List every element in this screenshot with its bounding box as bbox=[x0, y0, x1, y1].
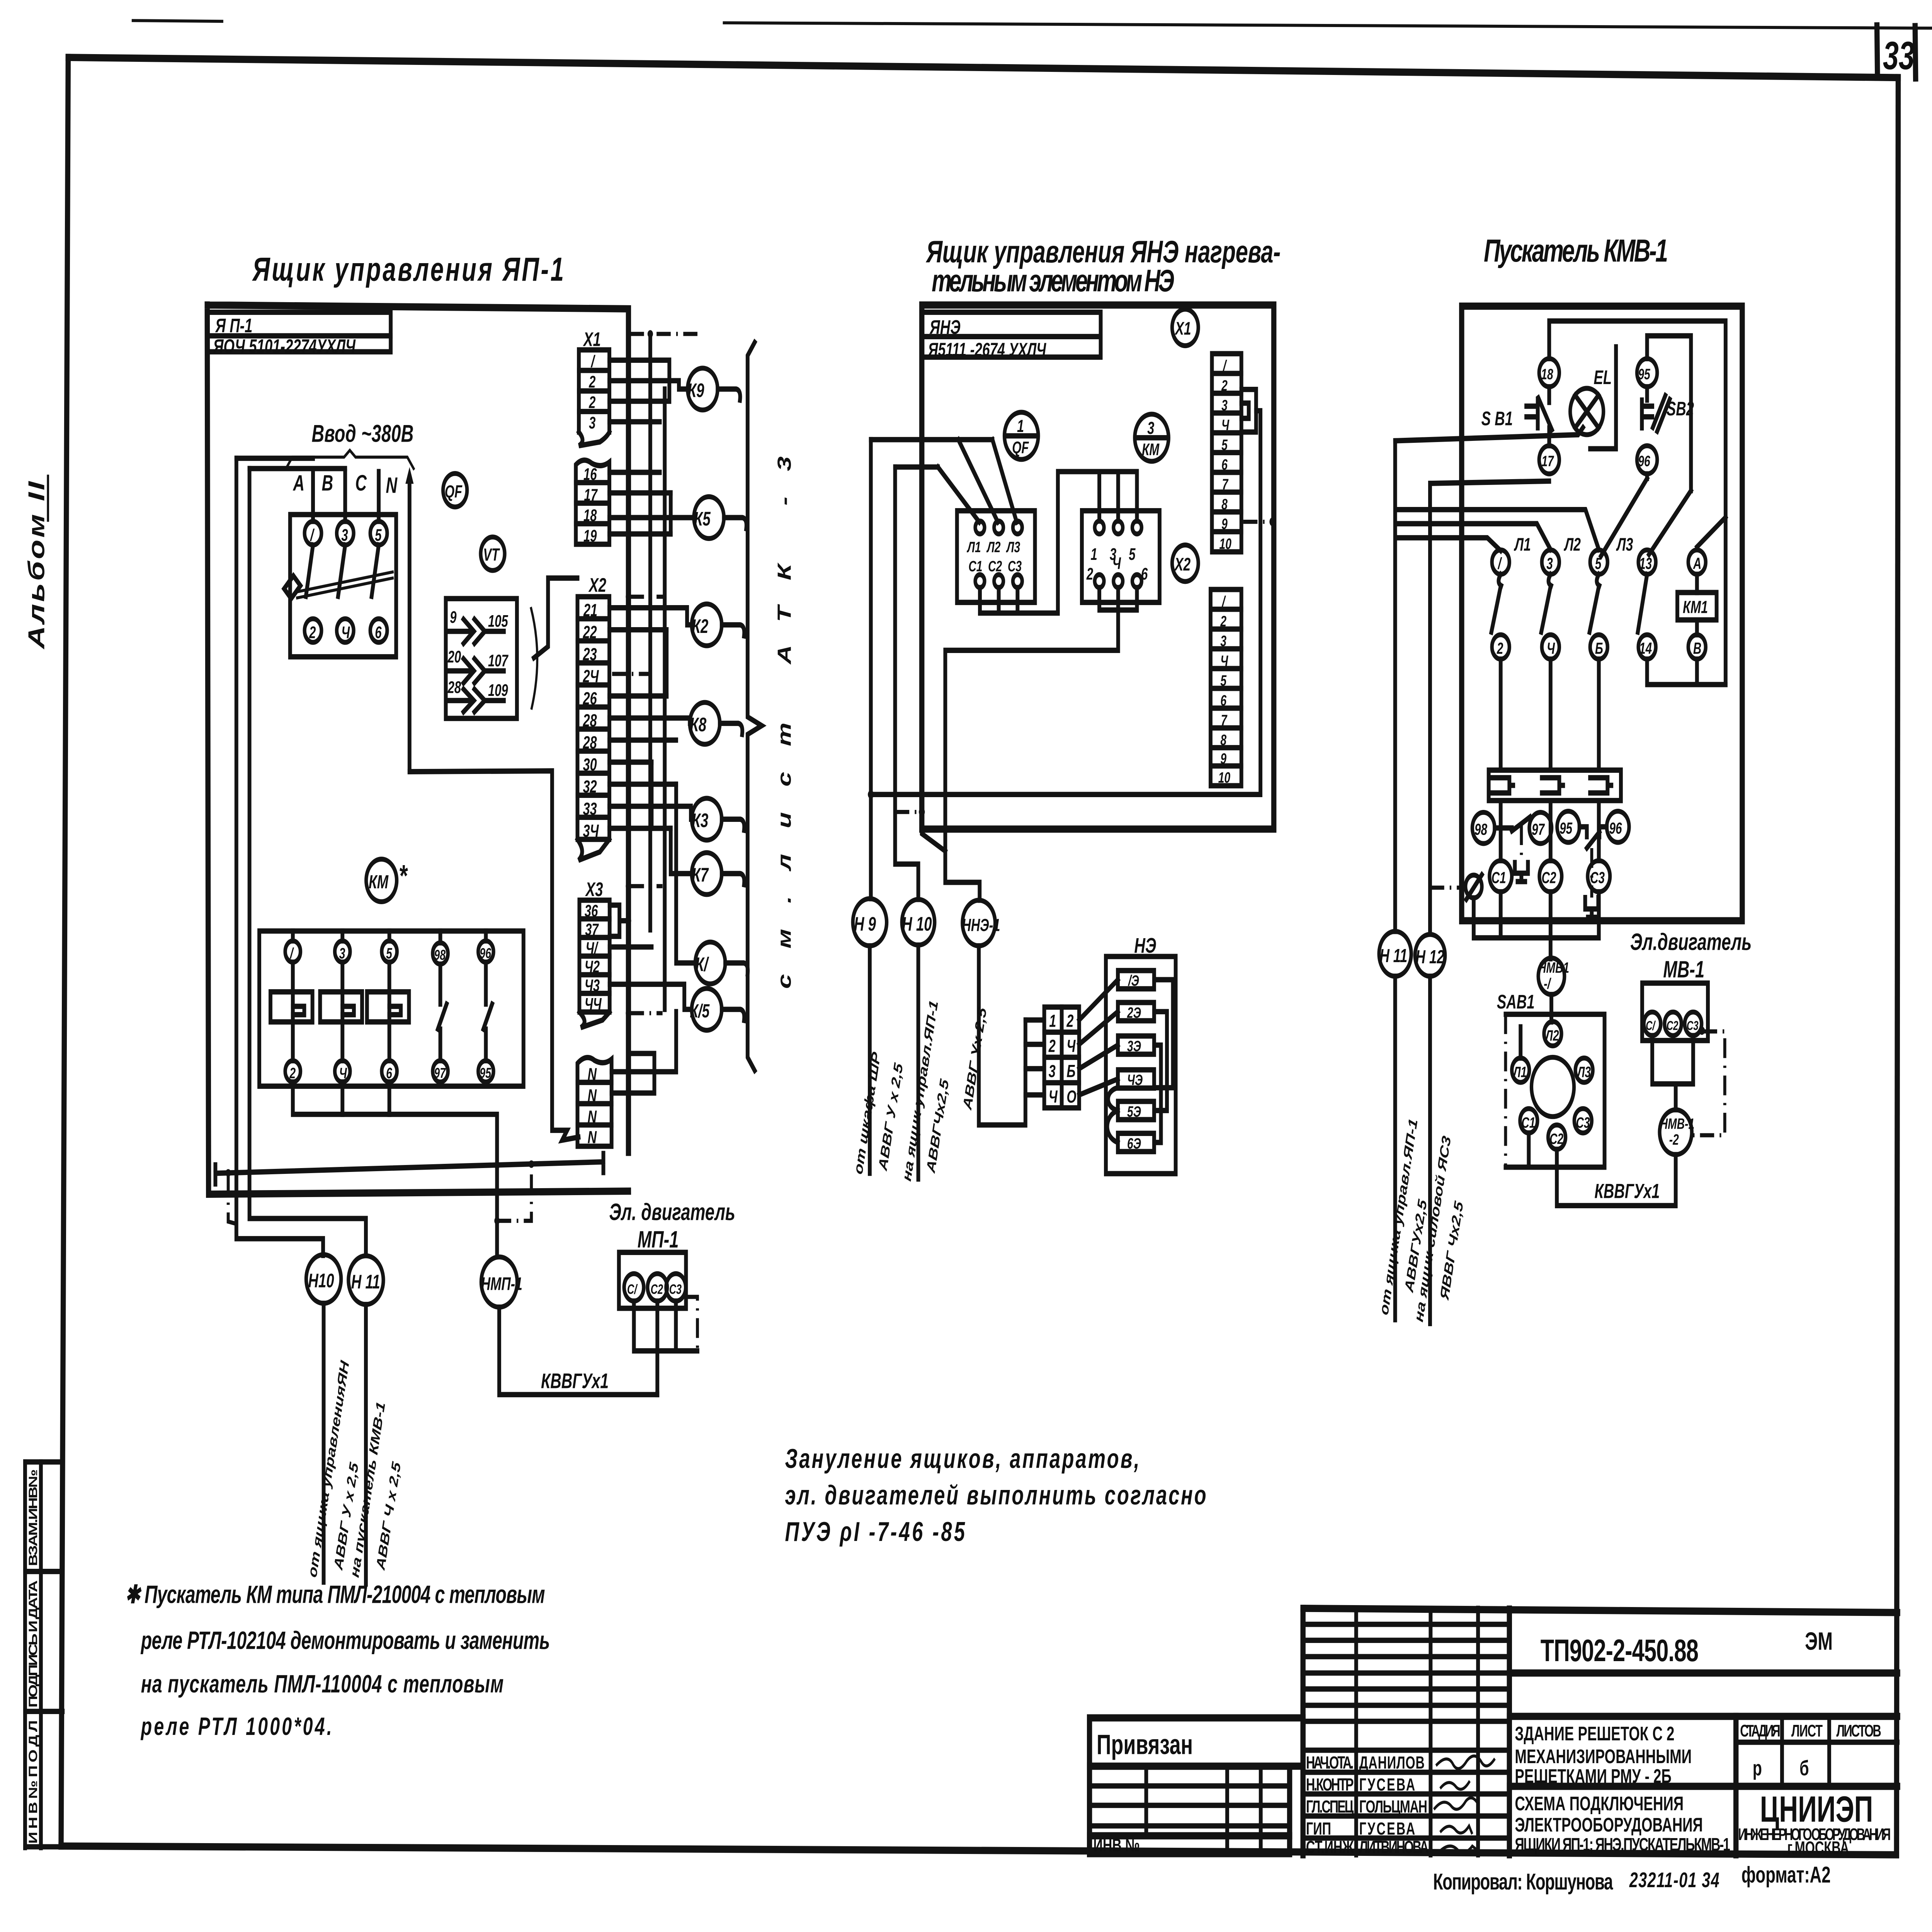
socket pin C2 bbox=[1548, 1125, 1565, 1149]
vertical link a bbox=[664, 630, 669, 696]
names rows bbox=[1303, 1748, 1509, 1753]
contactor 3/KM circle bbox=[1135, 414, 1168, 461]
cable circle H12 bbox=[1415, 934, 1445, 976]
svg-text:Л2: Л2 bbox=[986, 539, 1001, 556]
svg-text:ННЭ-1: ННЭ-1 bbox=[962, 915, 1000, 935]
svg-text:20: 20 bbox=[447, 647, 461, 666]
wire N to terminal bbox=[410, 771, 578, 1140]
wire X2-28 to K8 bbox=[609, 718, 690, 723]
column trunk 2 bbox=[662, 389, 667, 1009]
svg-text:С1: С1 bbox=[1521, 1114, 1535, 1131]
svg-text:ЭМ: ЭМ bbox=[1805, 1627, 1833, 1655]
svg-text:Ч: Ч bbox=[1049, 1087, 1058, 1107]
starter box KMV-1 bbox=[1462, 306, 1742, 921]
svg-text:2: 2 bbox=[309, 623, 316, 641]
socket pin L2 bbox=[1544, 1022, 1561, 1046]
cable circle K2 bbox=[692, 604, 722, 646]
svg-text:28: 28 bbox=[583, 711, 597, 731]
svg-text:96: 96 bbox=[1609, 819, 1622, 837]
cable circle K8 bbox=[690, 702, 720, 744]
svg-text:ЛИСТ: ЛИСТ bbox=[1791, 1721, 1823, 1740]
svg-text:КВВГУх1: КВВГУх1 bbox=[1594, 1179, 1660, 1202]
heater element 6E bbox=[1118, 1133, 1154, 1151]
svg-text:Б: Б bbox=[1066, 1061, 1075, 1081]
breaker handle square bbox=[284, 576, 300, 599]
svg-text:13: 13 bbox=[1639, 554, 1652, 573]
svg-text:ГИП: ГИП bbox=[1306, 1819, 1331, 1839]
svg-text:К/: К/ bbox=[695, 954, 709, 975]
wire cable to H10 bbox=[236, 458, 323, 1255]
svg-text:3: 3 bbox=[1049, 1061, 1056, 1081]
svg-text:б: б bbox=[1799, 1757, 1809, 1780]
svg-text:6: 6 bbox=[1141, 565, 1148, 583]
svg-text:ВЗАМ.ИНВ№: ВЗАМ.ИНВ№ bbox=[26, 1469, 40, 1566]
svg-text:КМ: КМ bbox=[369, 872, 389, 893]
motor wires bbox=[634, 1301, 697, 1395]
cable drop H11 bbox=[1393, 441, 1398, 932]
svg-text:32: 32 bbox=[583, 777, 597, 797]
svg-text:14: 14 bbox=[1639, 639, 1652, 657]
control wire SB1 line bbox=[1395, 427, 1583, 440]
svg-text:С3: С3 bbox=[1590, 869, 1605, 887]
svg-text:6Э: 6Э bbox=[1127, 1135, 1141, 1152]
top loop wire bbox=[1549, 321, 1726, 685]
svg-text:С2: С2 bbox=[1542, 869, 1556, 887]
cable circle K9 bbox=[688, 368, 718, 410]
cable line H12 bbox=[1427, 976, 1433, 1324]
svg-text:QF: QF bbox=[1012, 438, 1029, 457]
svg-text:Эл.двигатель: Эл.двигатель bbox=[1630, 929, 1752, 956]
svg-text:СТ.ИНЖ: СТ.ИНЖ bbox=[1306, 1837, 1354, 1857]
contactor KM circle bbox=[366, 859, 397, 901]
svg-text:N: N bbox=[588, 1128, 597, 1147]
svg-text:1: 1 bbox=[1090, 545, 1097, 563]
heater box NE bbox=[1106, 956, 1176, 1173]
X1 side tab bbox=[1242, 389, 1256, 432]
motor wires bbox=[1652, 1036, 1693, 1110]
cable circle K15 bbox=[692, 988, 722, 1030]
svg-text:5: 5 bbox=[1129, 545, 1136, 563]
aux contact 13-14 blade bbox=[1638, 574, 1647, 632]
breaker QF circle bbox=[443, 473, 467, 507]
svg-text:26: 26 bbox=[583, 689, 597, 709]
wire 95 to SB2 bbox=[1645, 387, 1650, 400]
cable line H11 bbox=[1393, 976, 1398, 1320]
svg-text:3: 3 bbox=[1221, 397, 1228, 414]
cabinet box YaNE bbox=[922, 305, 1274, 829]
phase verticals to relay bbox=[1498, 659, 1503, 770]
svg-text:МВ-1: МВ-1 bbox=[1663, 957, 1704, 983]
svg-text:МЕХАНИЗИРОВАННЫМИ: МЕХАНИЗИРОВАННЫМИ bbox=[1515, 1746, 1692, 1767]
cable circle H11 bbox=[1379, 931, 1411, 976]
svg-text:Зануление ящиков, аппаратов,: Зануление ящиков, аппаратов, bbox=[785, 1444, 1139, 1474]
svg-text:1: 1 bbox=[1017, 417, 1024, 436]
svg-text:9: 9 bbox=[1220, 750, 1226, 767]
heater element 1E bbox=[1118, 971, 1154, 989]
svg-text:Х2: Х2 bbox=[1174, 554, 1190, 575]
svg-text:S В1: S В1 bbox=[1481, 408, 1513, 430]
cable circle NNE-1 bbox=[963, 900, 995, 946]
svg-text:2Ч: 2Ч bbox=[583, 667, 599, 687]
contact terminals bottom row bbox=[1492, 635, 1509, 659]
wire X2-26 bbox=[609, 693, 667, 699]
svg-text:К7: К7 bbox=[692, 864, 709, 886]
95 loop wire bbox=[1647, 336, 1691, 491]
socket pin C1 bbox=[1520, 1109, 1537, 1133]
wire phase B feed bbox=[250, 466, 345, 471]
SEC2 bbox=[851, 305, 1276, 1183]
wire to K7 bbox=[671, 828, 692, 874]
cable line H9 bbox=[867, 946, 872, 1173]
svg-text:8: 8 bbox=[1220, 732, 1226, 749]
sheet frame top bbox=[68, 58, 1898, 78]
cable line H10 bbox=[916, 945, 921, 1179]
C1 C3 link bbox=[1501, 892, 1599, 938]
svg-text:ДАНИЛОВ: ДАНИЛОВ bbox=[1359, 1753, 1424, 1773]
svg-text:Ввод ~380В: Ввод ~380В bbox=[312, 420, 414, 447]
wire X3-43 to K15 bbox=[610, 984, 692, 1009]
svg-text:9: 9 bbox=[450, 608, 456, 626]
dash-dot NMP link bbox=[497, 1167, 531, 1221]
svg-text:37: 37 bbox=[585, 920, 599, 939]
wire X2-24 dash bbox=[612, 672, 650, 676]
relay heater elements bbox=[1492, 778, 1513, 793]
svg-text:Б: Б bbox=[1595, 639, 1603, 657]
svg-text:33: 33 bbox=[1883, 33, 1915, 78]
heater element 3E bbox=[1118, 1036, 1154, 1054]
svg-text:ТП902-2-450.88: ТП902-2-450.88 bbox=[1541, 1633, 1699, 1668]
svg-text:ГОЛЬЦМАН: ГОЛЬЦМАН bbox=[1359, 1797, 1427, 1817]
svg-text:С: С bbox=[355, 471, 367, 495]
KM contact 5-6 bbox=[382, 941, 397, 962]
svg-text:3Ч: 3Ч bbox=[583, 821, 599, 841]
svg-text:2: 2 bbox=[289, 1065, 296, 1082]
svg-text:-/: -/ bbox=[1544, 976, 1551, 993]
svg-text:Ч2: Ч2 bbox=[585, 957, 600, 976]
NOTES bbox=[125, 1444, 1206, 1740]
cable circle K5 bbox=[694, 497, 724, 538]
svg-text:Пускатель КМВ-1: Пускатель КМВ-1 bbox=[1484, 233, 1668, 269]
revision table bbox=[1090, 1766, 1290, 1855]
terminal 95 top bbox=[1637, 359, 1657, 387]
LEFTCOL bbox=[24, 476, 63, 1847]
svg-text:3: 3 bbox=[341, 526, 348, 544]
transformer VT circle bbox=[481, 537, 505, 571]
svg-text:Н 12: Н 12 bbox=[1416, 946, 1445, 968]
svg-text:6: 6 bbox=[386, 1065, 392, 1082]
breaker link bar bbox=[297, 572, 393, 592]
wire phase A feed bbox=[236, 456, 313, 461]
svg-text:Н10: Н10 bbox=[308, 1270, 334, 1292]
sheet frame left bbox=[61, 58, 68, 1846]
svg-text:5: 5 bbox=[1595, 554, 1602, 573]
heater left hooks bbox=[1107, 1088, 1118, 1143]
svg-text:Ч: Ч bbox=[1112, 554, 1121, 572]
svg-text:Х2: Х2 bbox=[588, 575, 607, 596]
control wire 17 line bbox=[1430, 481, 1549, 483]
heater terminal table bbox=[1044, 1007, 1079, 1108]
svg-text:10: 10 bbox=[1218, 769, 1230, 786]
svg-text:23211-01 34: 23211-01 34 bbox=[1629, 1869, 1719, 1892]
C2 to NMV-1-1 bbox=[1548, 892, 1553, 959]
svg-text:28: 28 bbox=[583, 733, 597, 753]
terminal strip N bbox=[577, 1058, 611, 1147]
svg-text:36: 36 bbox=[585, 901, 598, 920]
svg-text:А: А bbox=[293, 471, 304, 495]
svg-text:23: 23 bbox=[583, 645, 597, 664]
svg-text:реле РТЛ-102104 демонтировать: реле РТЛ-102104 демонтировать и заменить bbox=[140, 1626, 550, 1654]
wire KM out to NNE-1 bbox=[922, 829, 946, 851]
cable circle H10 bbox=[306, 1255, 341, 1303]
wire X2-32 bbox=[609, 782, 676, 787]
svg-text:ЯНЭ: ЯНЭ bbox=[929, 316, 960, 338]
breaker pole bottom contacts bbox=[304, 619, 321, 642]
svg-text:С2: С2 bbox=[1667, 1019, 1679, 1033]
feed wire h2 bbox=[895, 464, 938, 470]
cable circle K3 bbox=[692, 798, 722, 840]
wire lamp branch bbox=[1590, 347, 1616, 449]
svg-text:5: 5 bbox=[375, 526, 382, 544]
top dash-dot bbox=[630, 332, 698, 336]
left grid thin rows bbox=[1303, 1622, 1509, 1627]
motor terminals bbox=[1644, 1012, 1661, 1036]
svg-text:НАЧ.ОТА.: НАЧ.ОТА. bbox=[1306, 1753, 1354, 1773]
sheet frame bottom bbox=[61, 1846, 1896, 1855]
wire X2-34 bbox=[609, 826, 671, 831]
svg-text:ЭЛЕКТРООБОРУДОВАНИЯ: ЭЛЕКТРООБОРУДОВАНИЯ bbox=[1515, 1814, 1703, 1836]
svg-text:3Э: 3Э bbox=[1127, 1038, 1141, 1055]
svg-text:Х1: Х1 bbox=[1175, 318, 1191, 339]
cable circle H9 bbox=[853, 899, 886, 946]
svg-text:С2: С2 bbox=[651, 1281, 663, 1297]
svg-text:2: 2 bbox=[1086, 565, 1093, 583]
main stamp outline bbox=[1303, 1608, 1898, 1857]
svg-text:Ч/: Ч/ bbox=[586, 939, 599, 957]
svg-text:SАВ1: SАВ1 bbox=[1497, 991, 1535, 1013]
svg-text:98: 98 bbox=[1475, 820, 1487, 838]
svg-text:2: 2 bbox=[588, 372, 595, 391]
stage header bbox=[1732, 1716, 1740, 1855]
terminal 17 bbox=[1539, 446, 1559, 474]
svg-text:5: 5 bbox=[1220, 672, 1226, 689]
svg-text:С/: С/ bbox=[627, 1281, 638, 1297]
privyazan box bbox=[1090, 1718, 1303, 1766]
heater element 5E bbox=[1118, 1101, 1154, 1119]
svg-text:18: 18 bbox=[1541, 366, 1553, 383]
terminal strip X3 bbox=[579, 900, 609, 1028]
wire X2-22 bbox=[609, 627, 667, 633]
svg-text:ГУСЕВА: ГУСЕВА bbox=[1359, 1775, 1415, 1795]
svg-text:30: 30 bbox=[583, 755, 597, 775]
svg-text:ЧЧ: ЧЧ bbox=[585, 995, 602, 1013]
socket circle bbox=[1531, 1057, 1574, 1117]
wire X1-1 bbox=[609, 360, 669, 401]
cabinet box YaP-1 bbox=[207, 305, 628, 1194]
svg-text:К9: К9 bbox=[688, 380, 704, 401]
VT box bbox=[446, 599, 517, 718]
cable line NNE-1 bbox=[979, 946, 1026, 1125]
svg-text:ПУЭ ρI -7-46 -85: ПУЭ ρI -7-46 -85 bbox=[785, 1517, 965, 1547]
dash-dot ground stub bbox=[228, 1175, 236, 1224]
svg-text:реле РТЛ 1000*04.: реле РТЛ 1000*04. bbox=[140, 1713, 332, 1740]
svg-text:С3: С3 bbox=[669, 1281, 682, 1297]
breaker blades bbox=[306, 545, 313, 596]
wire KM outputs to NMP-1 bbox=[293, 1082, 497, 1256]
svg-text:21: 21 bbox=[583, 600, 597, 620]
brace see sheet ATK-3 bbox=[748, 342, 762, 1071]
svg-text:VT: VT bbox=[483, 545, 500, 565]
svg-text:Л2: Л2 bbox=[1544, 1027, 1559, 1044]
svg-text:С3: С3 bbox=[1008, 558, 1022, 575]
cable circle K1 bbox=[695, 942, 725, 984]
KM bottom terminals bbox=[1095, 575, 1104, 587]
svg-text:3: 3 bbox=[1147, 418, 1154, 438]
svg-text:3: 3 bbox=[339, 945, 345, 962]
svg-text:2: 2 bbox=[588, 393, 595, 412]
breaker pole top contacts bbox=[304, 521, 321, 545]
svg-text:10: 10 bbox=[1219, 536, 1231, 553]
socket pin L1 bbox=[1512, 1058, 1529, 1082]
svg-text:Л1: Л1 bbox=[1512, 1064, 1527, 1081]
svg-text:ЗДАНИЕ РЕШЕТОК С 2: ЗДАНИЕ РЕШЕТОК С 2 bbox=[1515, 1723, 1674, 1745]
svg-text:17: 17 bbox=[584, 485, 598, 504]
svg-text:формат:А2: формат:А2 bbox=[1742, 1862, 1831, 1888]
wire N2 bbox=[612, 1053, 655, 1093]
svg-text:/Э: /Э bbox=[1128, 973, 1139, 990]
brace under vvod bbox=[286, 450, 413, 468]
svg-text:Копировал: Коршунова: Копировал: Коршунова bbox=[1433, 1869, 1613, 1895]
wire to K1 bbox=[676, 784, 695, 963]
KM aux contact 98-97 bbox=[433, 943, 448, 964]
cable circle NMP-1 bbox=[481, 1257, 517, 1307]
svg-text:тельным элементом НЭ: тельным элементом НЭ bbox=[932, 263, 1174, 298]
svg-text:В: В bbox=[1693, 639, 1701, 657]
KM aux contact 96-95 bbox=[478, 941, 494, 962]
svg-text:СТАДИЯ: СТАДИЯ bbox=[1740, 1721, 1780, 1740]
svg-text:33: 33 bbox=[583, 799, 597, 819]
svg-text:НМВ1: НМВ1 bbox=[1538, 959, 1569, 976]
svg-text:8: 8 bbox=[1221, 496, 1228, 513]
top thin binder line bbox=[133, 20, 222, 21]
svg-text:р: р bbox=[1753, 1757, 1762, 1780]
svg-text:ГУСЕВА: ГУСЕВА bbox=[1359, 1819, 1415, 1839]
svg-text:КМ: КМ bbox=[1142, 440, 1160, 459]
N arrow up bbox=[407, 480, 412, 772]
svg-text:К5: К5 bbox=[694, 508, 711, 530]
wire X1-18 to K5 bbox=[609, 515, 694, 520]
VT output bracket bbox=[531, 609, 537, 708]
svg-text:97: 97 bbox=[434, 1065, 446, 1081]
svg-text:QF: QF bbox=[445, 482, 463, 502]
svg-text:Л3: Л3 bbox=[1577, 1064, 1591, 1081]
terminal circle X2 bbox=[1172, 545, 1198, 581]
A feed diagonal bbox=[1697, 517, 1726, 547]
wire H10 drop bbox=[895, 467, 918, 900]
svg-text:ИНВ№ПОДЛ: ИНВ№ПОДЛ bbox=[26, 1720, 40, 1844]
svg-text:С2: С2 bbox=[988, 558, 1002, 575]
relay contact 98-97 bbox=[1472, 812, 1495, 844]
contactor KM box bbox=[259, 931, 524, 1086]
svg-text:г.МОСКВА: г.МОСКВА bbox=[1787, 1838, 1849, 1858]
svg-text:ЧЭ: ЧЭ bbox=[1127, 1072, 1143, 1089]
svg-text:7: 7 bbox=[1221, 712, 1228, 729]
svg-text:2: 2 bbox=[1066, 1011, 1074, 1031]
wire 18-17 vertical bbox=[1546, 387, 1552, 446]
svg-text:ЛИСТОВ: ЛИСТОВ bbox=[1836, 1721, 1881, 1740]
svg-text:N: N bbox=[588, 1065, 597, 1084]
svg-text:5: 5 bbox=[1221, 437, 1228, 454]
svg-text:107: 107 bbox=[488, 651, 509, 670]
svg-text:Л3: Л3 bbox=[1616, 534, 1633, 555]
svg-text:28: 28 bbox=[447, 678, 461, 696]
svg-text:9: 9 bbox=[1221, 516, 1228, 533]
svg-text:ГЛ.СПЕЦ: ГЛ.СПЕЦ bbox=[1306, 1797, 1354, 1817]
relay contact 95-96 bbox=[1557, 811, 1580, 842]
terminal 18 bbox=[1539, 359, 1559, 387]
cable circle H11 bbox=[349, 1256, 383, 1304]
svg-text:2: 2 bbox=[1221, 377, 1228, 394]
svg-text:С3: С3 bbox=[1687, 1019, 1699, 1033]
svg-text:N: N bbox=[386, 473, 397, 498]
svg-text:эл. двигателей выполнить согла: эл. двигателей выполнить согласно bbox=[785, 1480, 1206, 1510]
SEC3 bbox=[1377, 306, 1752, 1323]
TITLEBLOCK bbox=[1090, 1608, 1898, 1894]
vertical link c bbox=[649, 762, 654, 828]
cable circle NMV-1-2 bbox=[1660, 1110, 1692, 1155]
ground symbol bbox=[1466, 875, 1482, 898]
svg-text:✱ Пускатель КМ типа ПМЛ-21000: ✱ Пускатель КМ типа ПМЛ-210004 с тепловы… bbox=[125, 1580, 545, 1608]
svg-text:3: 3 bbox=[1546, 554, 1553, 573]
svg-text:97: 97 bbox=[1532, 820, 1545, 838]
heater chain right 2 bbox=[1154, 1012, 1167, 1111]
svg-text:109: 109 bbox=[488, 681, 508, 699]
PE dash-dot bbox=[895, 810, 920, 814]
cable drop H12 bbox=[1427, 483, 1433, 933]
label box YaP-1 bbox=[207, 312, 391, 357]
svg-text:на пускатель ПМЛ-110004 с тепл: на пускатель ПМЛ-110004 с тепловым bbox=[141, 1670, 503, 1697]
svg-text:95: 95 bbox=[1560, 819, 1573, 837]
svg-text:3: 3 bbox=[1220, 633, 1226, 650]
svg-text:N: N bbox=[588, 1086, 597, 1105]
lamp EL bbox=[1570, 388, 1604, 435]
svg-text:EL: EL bbox=[1594, 367, 1612, 388]
dash-dot K15 row bbox=[630, 1011, 663, 1015]
svg-text:Привязан: Привязан bbox=[1097, 1729, 1193, 1760]
svg-text:ПОДПИСЬ И ДАТА: ПОДПИСЬ И ДАТА bbox=[26, 1580, 40, 1708]
svg-text:96: 96 bbox=[1638, 453, 1650, 470]
svg-text:СХЕМА ПОДКЛЮЧЕНИЯ: СХЕМА ПОДКЛЮЧЕНИЯ bbox=[1515, 1793, 1684, 1815]
svg-text:-2: -2 bbox=[1669, 1131, 1679, 1148]
motor ground dash-dot bbox=[686, 1297, 697, 1351]
feed diagonals bbox=[958, 440, 998, 522]
sheet frame right bbox=[1896, 78, 1898, 1855]
signatures bbox=[1437, 1756, 1494, 1769]
socket SAB1 frame bbox=[1505, 1014, 1604, 1167]
KM out bbox=[945, 588, 1137, 900]
svg-text:НМВ-1: НМВ-1 bbox=[1660, 1116, 1694, 1133]
svg-text:В: В bbox=[322, 471, 333, 495]
svg-text:Ящик управления ЯП-1: Ящик управления ЯП-1 bbox=[252, 250, 564, 288]
svg-text:ЯЩИКИ ЯП-1; ЯНЭ.ПУСКАТЕЛЬКМВ-1: ЯЩИКИ ЯП-1; ЯНЭ.ПУСКАТЕЛЬКМВ-1 bbox=[1515, 1834, 1730, 1855]
svg-text:*: * bbox=[399, 859, 408, 893]
svg-text:ЯОЧ 5101-2274УХЛЧ: ЯОЧ 5101-2274УХЛЧ bbox=[213, 336, 356, 357]
svg-text:С2: С2 bbox=[1549, 1131, 1563, 1148]
breaker 1/QF circle bbox=[1004, 412, 1038, 459]
svg-text:105: 105 bbox=[488, 612, 509, 630]
svg-text:Я П-1: Я П-1 bbox=[215, 315, 253, 337]
X2 top dash-dot bbox=[630, 595, 665, 599]
table feed wires bbox=[1026, 1020, 1044, 1095]
